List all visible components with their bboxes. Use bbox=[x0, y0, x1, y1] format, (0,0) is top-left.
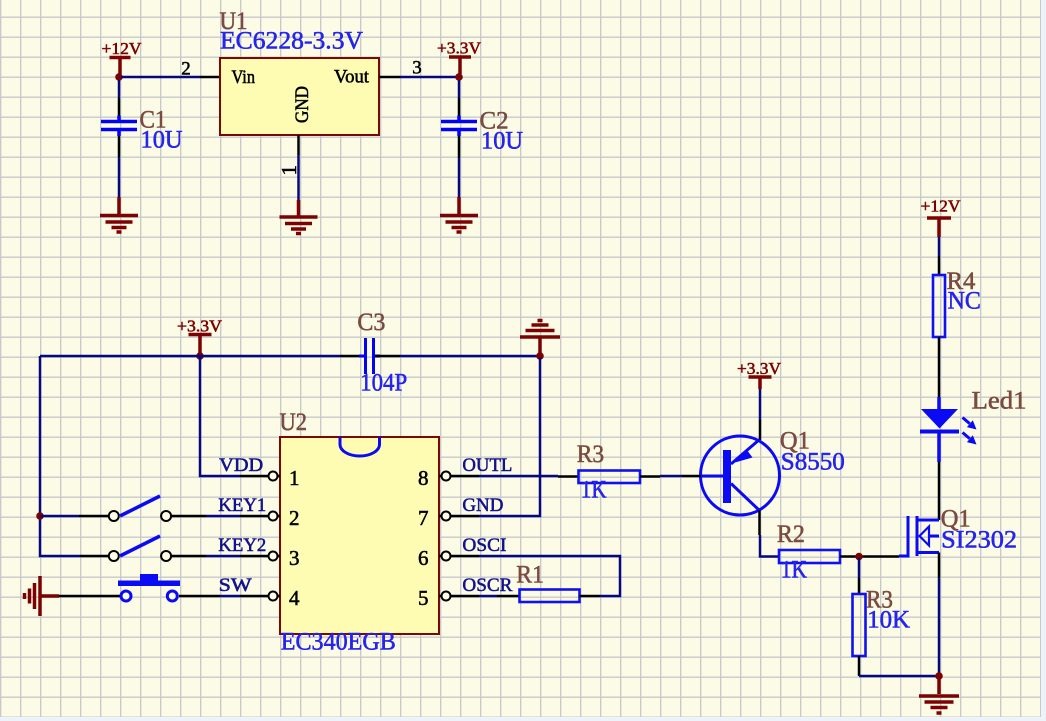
pin 2 (Vin) of U1 bbox=[200, 76, 220, 79]
svg-text:EC6228-3.3V: EC6228-3.3V bbox=[220, 28, 363, 55]
wire left bus vertical bbox=[40, 356, 80, 556]
ground (under U1) bbox=[280, 200, 318, 234]
svg-text:8: 8 bbox=[418, 466, 429, 490]
node A (+12V / C1 / Vin junction) bbox=[115, 73, 123, 81]
wire LED to MOSFET drain bbox=[938, 462, 941, 520]
resistor R4 NC bbox=[933, 256, 981, 397]
ground (under C1) bbox=[100, 197, 138, 232]
svg-text:R1: R1 bbox=[516, 562, 544, 589]
svg-text:10U: 10U bbox=[481, 128, 523, 155]
svg-text:3: 3 bbox=[289, 546, 300, 570]
wire +12V to R4 bbox=[938, 237, 941, 256]
pin 6 OSCI bbox=[439, 535, 506, 561]
wire collector to R2 bbox=[760, 535, 779, 557]
transistor Q1 S8550 bbox=[701, 389, 845, 535]
ground (left, rotated) bbox=[25, 576, 60, 616]
svg-text:2: 2 bbox=[181, 59, 191, 80]
ground (top, flipped up) bbox=[520, 321, 560, 357]
node G (bus / KEY1 junction) bbox=[36, 512, 44, 520]
pin 3 (Vout) of U1 bbox=[379, 76, 400, 79]
resistor R3 1K bbox=[558, 441, 660, 504]
wire +3.3V node to VDD pin bbox=[200, 356, 240, 476]
svg-text:R2: R2 bbox=[777, 521, 805, 548]
ground (bottom right) bbox=[919, 676, 959, 713]
svg-text:OUTL: OUTL bbox=[462, 455, 512, 476]
pin 2 KEY1 bbox=[218, 495, 280, 521]
wire pin6 OSCI to R1 bbox=[479, 556, 620, 596]
capacitor C1 bbox=[101, 80, 183, 197]
capacitor C3 104P bbox=[340, 309, 407, 397]
svg-text:OSCR: OSCR bbox=[462, 575, 512, 596]
pin 4 SW bbox=[219, 575, 280, 601]
svg-text:KEY1: KEY1 bbox=[218, 495, 266, 516]
pin 8 OUTL bbox=[439, 455, 512, 481]
svg-text:U2: U2 bbox=[280, 409, 308, 436]
svg-text:Vout: Vout bbox=[334, 67, 370, 88]
wire pin7 GND to top bus bbox=[479, 358, 540, 516]
power +3.3V (above U2) bbox=[189, 335, 212, 354]
svg-text:OSCI: OSCI bbox=[462, 535, 506, 556]
svg-text:5: 5 bbox=[418, 586, 429, 610]
svg-text:+3.3V: +3.3V bbox=[177, 317, 222, 336]
svg-text:Vin: Vin bbox=[232, 67, 256, 88]
svg-text:1: 1 bbox=[289, 466, 300, 490]
node F (top wire / pin7 / ground junction) bbox=[536, 352, 544, 360]
pushbutton SW bbox=[59, 574, 240, 601]
wire MOSFET source down to node D bbox=[938, 553, 941, 579]
power +3.3V (above Q1 S8550) bbox=[749, 377, 772, 389]
svg-text:7: 7 bbox=[418, 506, 429, 530]
op-amp U1 body EC6228-3.3V bbox=[220, 58, 379, 135]
wire Vout to +3.3V node bbox=[400, 76, 457, 79]
pin 1 (GND) of U1 bbox=[297, 135, 300, 155]
svg-text:R3: R3 bbox=[577, 441, 604, 468]
resistor R1 bbox=[497, 562, 600, 603]
svg-text:EC340EGB: EC340EGB bbox=[281, 629, 396, 656]
pin 1 VDD bbox=[219, 455, 280, 481]
svg-text:KEY2: KEY2 bbox=[218, 535, 266, 556]
svg-text:SI2302: SI2302 bbox=[941, 527, 1017, 554]
svg-text:+12V: +12V bbox=[102, 39, 142, 58]
svg-text:Led1: Led1 bbox=[972, 388, 1027, 415]
capacitor C2 bbox=[441, 80, 523, 197]
wire pin5 OSCR to R1 bbox=[479, 595, 497, 598]
svg-text:4: 4 bbox=[289, 586, 300, 610]
svg-text:10U: 10U bbox=[141, 127, 183, 154]
svg-text:1K: 1K bbox=[781, 557, 807, 584]
svg-text:C3: C3 bbox=[357, 309, 385, 336]
pin 5 OSCR bbox=[439, 575, 513, 601]
wire pin8 OUTL to R3 bbox=[479, 475, 558, 478]
svg-text:3: 3 bbox=[412, 58, 422, 79]
node E (+3.3V / top wire junction) bbox=[196, 352, 204, 360]
power +3.3V (top right) bbox=[449, 57, 471, 74]
wire top bus bbox=[40, 355, 340, 358]
node B (Vout / +3.3V / C2 junction) bbox=[455, 73, 463, 81]
power +12V (left) bbox=[110, 58, 131, 75]
svg-text:S8550: S8550 bbox=[781, 449, 845, 476]
wire U1 GND pin down bbox=[297, 155, 300, 200]
node D (source / R3 / ground junction) bbox=[935, 672, 943, 680]
svg-text:1K: 1K bbox=[581, 477, 607, 504]
pin 3 KEY2 bbox=[218, 535, 280, 561]
wire R3 to Q1 base bbox=[660, 475, 682, 478]
transistor Q1 SI2302 (MOSFET) bbox=[899, 506, 1017, 557]
svg-text:+3.3V: +3.3V bbox=[737, 359, 781, 378]
svg-text:6: 6 bbox=[418, 546, 429, 570]
ground (under C2) bbox=[440, 197, 478, 232]
svg-text:GND: GND bbox=[462, 495, 503, 516]
LED Led1 bbox=[920, 388, 1027, 463]
pin 7 GND bbox=[439, 495, 503, 521]
svg-text:104P: 104P bbox=[360, 370, 407, 397]
svg-text:2: 2 bbox=[289, 506, 300, 530]
wire +12V node to Vin bbox=[121, 76, 200, 79]
svg-text:+3.3V: +3.3V bbox=[437, 39, 481, 58]
resistor R2 1K bbox=[777, 521, 899, 584]
node C (R2 / R3 / gate junction) bbox=[855, 553, 863, 561]
svg-text:GND: GND bbox=[292, 86, 313, 123]
svg-text:SW: SW bbox=[219, 575, 252, 596]
power +12V (top right column) bbox=[927, 218, 951, 237]
switch KEY1 bbox=[40, 496, 240, 521]
svg-text:10K: 10K bbox=[867, 607, 910, 634]
svg-text:+12V: +12V bbox=[921, 197, 961, 216]
resistor R3 10K (vertical) bbox=[853, 558, 911, 676]
switch KEY2 bbox=[80, 536, 240, 561]
svg-text:VDD: VDD bbox=[219, 455, 263, 476]
IC U2 body EC340EGB bbox=[280, 437, 439, 634]
wire R3 bottom to node D bbox=[859, 675, 939, 678]
svg-text:NC: NC bbox=[948, 288, 981, 315]
